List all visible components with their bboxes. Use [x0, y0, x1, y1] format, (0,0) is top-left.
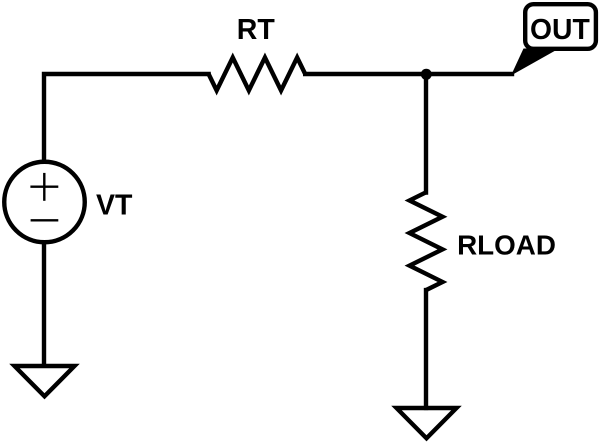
svg-text:RLOAD: RLOAD	[457, 230, 556, 261]
flag box for net OUT	[525, 4, 596, 49]
plus sign inside VT	[30, 173, 58, 201]
resistor R2 "RLOAD" zigzag	[410, 192, 443, 290]
ground symbol right	[397, 408, 457, 438]
svg-text:RT: RT	[237, 14, 276, 46]
wire from RT to OUT pointer through node	[305, 72, 512, 76]
wire from RLOAD to right ground	[424, 290, 428, 408]
resistor R1 "RT" zigzag	[209, 58, 306, 91]
voltage source U1 "VT" circle	[4, 162, 85, 243]
ground symbol left	[15, 366, 75, 396]
wire from VT top to top-left corner	[44, 74, 209, 162]
wire from VT bottom to left ground	[42, 242, 46, 366]
minus sign inside VT	[31, 219, 59, 221]
svg-text:VT: VT	[96, 189, 133, 221]
node junction dot	[421, 69, 432, 80]
OUT flag pointer triangle	[511, 49, 559, 76]
svg-text:OUT: OUT	[530, 13, 590, 45]
wire from node down to RLOAD	[424, 74, 428, 193]
